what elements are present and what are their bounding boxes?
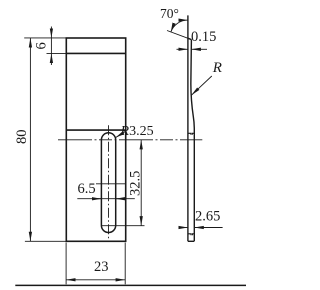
left face line + extension above <box>187 15 189 241</box>
front view outline <box>66 38 125 241</box>
dimension 32.5 <box>140 140 142 226</box>
step line 6 below top <box>66 52 125 54</box>
svg-text:2.65: 2.65 <box>195 209 220 225</box>
drawing border bottom <box>15 284 246 286</box>
dimension 2.65 <box>180 227 223 229</box>
dimension 80 <box>29 38 31 241</box>
dimension 0.15 <box>177 48 208 50</box>
angle dimension 70deg <box>171 20 188 32</box>
slot (rounded slot) <box>101 133 115 233</box>
top edge extension <box>24 37 66 39</box>
top chamfer edge <box>188 38 192 39</box>
hidden slot lines in side view <box>188 133 194 235</box>
side view <box>188 15 194 241</box>
right profile with R taper <box>191 40 194 242</box>
bottom edge <box>188 240 194 242</box>
tangent line across part <box>66 129 125 131</box>
dimension 23 <box>66 243 125 285</box>
horizontal centerline through slot top arc and side view <box>58 139 202 141</box>
dimension line with outside arrows <box>77 198 135 200</box>
bottom edge extension <box>25 240 66 242</box>
svg-text:70°: 70° <box>160 6 179 21</box>
svg-text:R: R <box>212 60 222 76</box>
leader line at text level <box>96 183 125 185</box>
svg-text:6.5: 6.5 <box>78 181 96 197</box>
slot vertical centerline <box>108 125 110 241</box>
svg-text:32.5: 32.5 <box>128 171 144 196</box>
chamfer extension line for 70 deg <box>167 31 191 40</box>
dimension 6 <box>50 27 52 66</box>
svg-text:23: 23 <box>94 259 109 275</box>
step line extension <box>47 52 67 54</box>
slot bottom arc center extension <box>101 225 144 227</box>
extension lines top/bottom left <box>24 38 66 241</box>
svg-text:0.15: 0.15 <box>191 29 216 45</box>
svg-text:80: 80 <box>14 130 30 145</box>
svg-text:6: 6 <box>33 42 49 49</box>
